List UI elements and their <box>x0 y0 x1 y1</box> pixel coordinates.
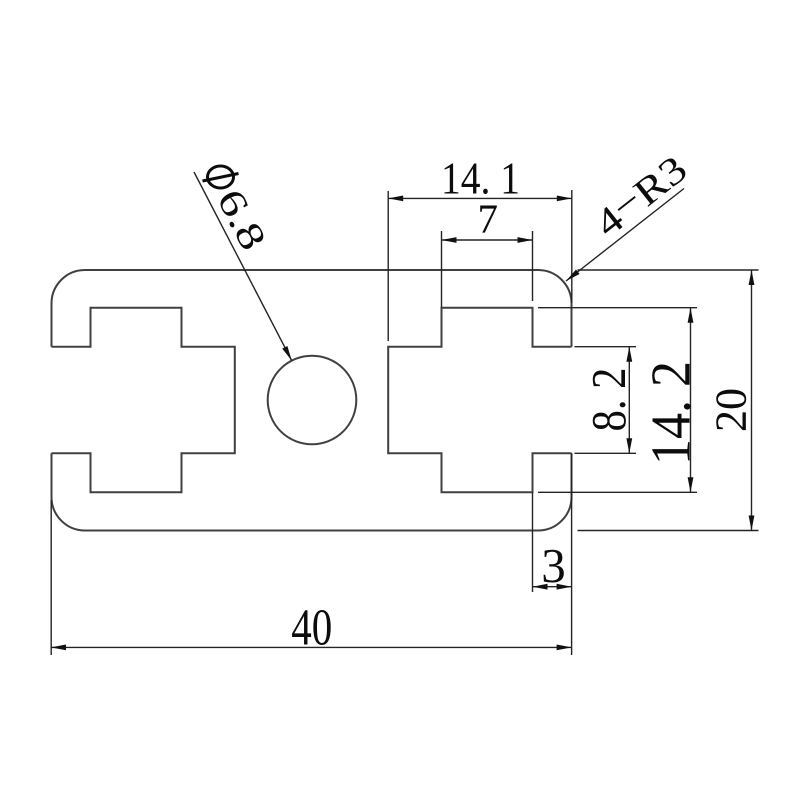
svg-text:14. 2: 14. 2 <box>641 361 703 465</box>
arrowheads dim 14.1 <box>388 196 403 202</box>
svg-text:3: 3 <box>541 538 566 593</box>
arrowheads dim 3 small <box>533 584 548 590</box>
dim 8.2 dimension line <box>628 347 630 454</box>
dim 7 extension lines <box>441 231 443 308</box>
dim 8.2 extension lines <box>575 346 637 348</box>
dim 20 dimension line <box>751 270 753 531</box>
dim 7 dimension line <box>442 239 533 241</box>
svg-text:8. 2: 8. 2 <box>581 368 636 432</box>
profile outer boundary left upper section <box>52 270 85 347</box>
dim 40 dimension line <box>51 646 572 648</box>
dim 40 extension line left <box>50 500 52 655</box>
svg-text:6.8: 6.8 <box>208 183 274 257</box>
hole circle phi 6.8 <box>268 356 357 445</box>
leader line 4-R3 <box>566 189 684 282</box>
svg-text:20: 20 <box>707 388 756 432</box>
profile outer boundary top section with rounded corners <box>85 270 572 347</box>
dim 14.1 extension lines <box>387 191 389 341</box>
dim 14.1 dimension line <box>388 197 572 199</box>
left T-slot cavity outline <box>52 308 235 493</box>
svg-text:7: 7 <box>478 196 499 242</box>
profile outer boundary bottom section <box>52 453 572 530</box>
leader text phi symbol slash <box>203 174 239 182</box>
dim 3 dimension line <box>533 586 572 588</box>
dim 14.2 dimension line <box>690 308 692 493</box>
leader line phi 6.8 <box>194 172 292 361</box>
arrowhead leader phi6.8 <box>282 346 294 362</box>
dim 3 extension lines <box>532 492 534 592</box>
leader text phi symbol drawn manually: circle <box>208 166 234 188</box>
dim 14.2 extension lines <box>538 307 697 309</box>
right T-slot cavity outline <box>388 308 571 493</box>
arrowheads dim 14.2 <box>688 308 694 323</box>
svg-text:4−R3: 4−R3 <box>585 145 695 246</box>
dim 20 extension lines <box>578 269 759 271</box>
arrowheads dim 7 <box>442 237 457 243</box>
arrowheads dim 8.2 <box>626 347 632 362</box>
arrowheads dim 20 <box>749 270 755 285</box>
arrowheads dim 40 <box>51 645 66 651</box>
arrowhead leader 4-R3 <box>564 269 579 283</box>
svg-text:40: 40 <box>291 600 332 657</box>
